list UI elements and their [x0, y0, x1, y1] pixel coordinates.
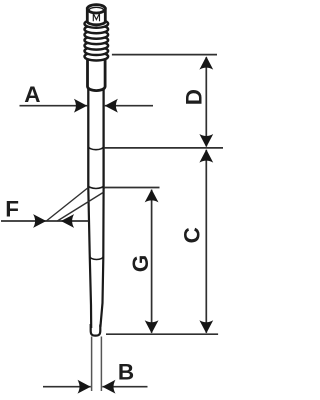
needle tip cap — [91, 324, 101, 336]
G top reference line — [105, 187, 160, 189]
dimension C top arrow — [199, 149, 213, 162]
taper left side — [88, 189, 91, 329]
section arc at first taper stage — [88, 146, 103, 149]
svg-text:G: G — [128, 255, 153, 273]
dimension A left line — [20, 105, 88, 107]
clip groove ring 5 — [85, 42, 109, 50]
F shallow leader diagonal — [57, 192, 103, 221]
section arc at taper start — [88, 185, 103, 188]
shank left side — [87, 88, 89, 189]
dimension G bottom arrow — [145, 320, 159, 333]
D/C boundary reference line — [105, 147, 223, 149]
svg-text:B: B — [118, 360, 134, 385]
clip groove ring 4 — [85, 36, 109, 44]
needle head top ellipse — [87, 5, 105, 13]
needle head inner rim — [89, 7, 103, 13]
svg-text:F: F — [5, 197, 19, 222]
clip groove ring 2 — [85, 25, 109, 33]
dimension B left arrow — [78, 380, 91, 394]
section arc on taper — [90, 256, 104, 259]
clip groove ring 6 — [85, 47, 109, 55]
dimension D bottom arrow — [199, 134, 213, 147]
B extension line right — [100, 337, 102, 392]
clip groove ring 7 — [85, 53, 109, 61]
dimension A right line — [105, 105, 153, 107]
F steep leader diagonal — [46, 188, 88, 222]
dimension F right-pointing arrow — [33, 214, 46, 228]
needle head body — [87, 9, 105, 25]
shank right side — [102, 88, 104, 189]
dimension B right arrow — [102, 380, 115, 394]
dimension A right arrow — [105, 99, 118, 113]
dimension F left-pointing arrow — [61, 214, 74, 228]
upper cylinder — [88, 50, 106, 91]
bottom reference line — [106, 333, 218, 335]
clip groove ring 3 — [85, 31, 109, 39]
svg-text:D: D — [182, 89, 207, 105]
D top reference line — [112, 54, 217, 56]
dimension B left line — [43, 386, 91, 388]
dimension D top arrow — [199, 56, 213, 69]
dimension B right line — [102, 386, 147, 388]
taper right side — [100, 189, 103, 328]
clip groove ring 1 — [85, 20, 109, 28]
dimension C bottom arrow — [199, 320, 213, 333]
dimension G line — [151, 190, 153, 333]
svg-text:C: C — [179, 227, 204, 243]
B extension line left — [91, 337, 93, 392]
svg-text:A: A — [24, 82, 40, 107]
dimension G top arrow — [145, 189, 159, 202]
dimension C line — [205, 150, 207, 333]
head marking M — [93, 14, 99, 22]
dimension F line — [1, 220, 88, 222]
dimension D line — [205, 57, 207, 146]
dimension A left arrow — [74, 99, 87, 113]
